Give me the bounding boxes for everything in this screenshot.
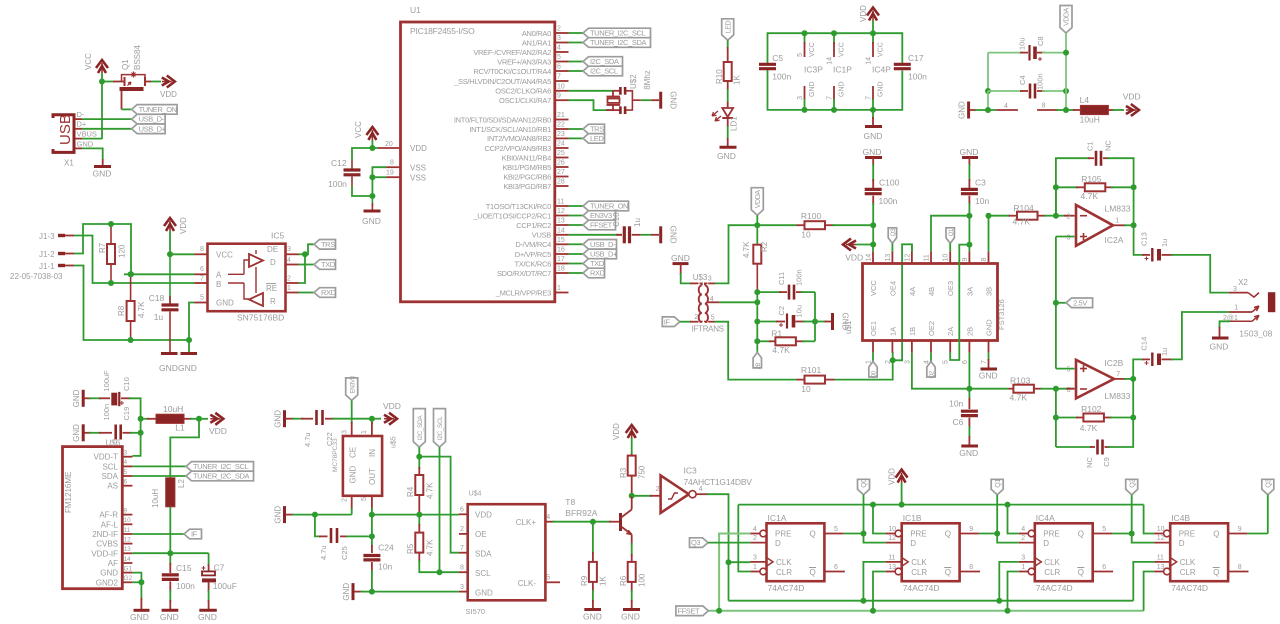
wire IC1A PRE to FFSET net <box>719 534 750 611</box>
svg-text:16: 16 <box>557 247 565 254</box>
wire VDD to pin8 <box>170 253 195 255</box>
svg-text:4: 4 <box>699 486 703 493</box>
pin 3 1B <box>911 341 913 353</box>
svg-text:1A: 1A <box>888 327 897 336</box>
ground symbol mixer input <box>831 313 834 330</box>
svg-text:IC1B: IC1B <box>903 513 922 523</box>
wire GND row to IC5 pin5 <box>131 339 189 341</box>
svg-text:AF-L: AF-L <box>101 520 119 529</box>
node OUT <box>369 512 375 518</box>
ground symbol C24 row <box>352 583 355 600</box>
svg-text:R102: R102 <box>1081 404 1102 414</box>
svg-text:4.7K: 4.7K <box>1081 191 1099 201</box>
pin 3 DE <box>286 253 299 255</box>
wire IC1B CLR <box>873 572 886 611</box>
svg-text:C5: C5 <box>772 53 783 63</box>
svg-text:I2C_SDA: I2C_SDA <box>417 415 424 440</box>
svg-text:IF: IF <box>191 530 198 539</box>
wire SCL to flag <box>132 465 186 467</box>
node IC2A out <box>1131 222 1137 228</box>
wire VBUS to VCC node <box>82 138 102 140</box>
svg-text:I2C_SCL: I2C_SCL <box>437 416 444 440</box>
svg-text:3: 3 <box>708 276 712 283</box>
svg-text:10: 10 <box>124 517 132 524</box>
pin 1 CLR <box>760 568 767 575</box>
svg-text:2: 2 <box>1021 535 1025 542</box>
resistor R1 4.7K <box>757 340 771 342</box>
pin 2 GND reg <box>351 496 353 510</box>
svg-text:6: 6 <box>460 507 464 514</box>
pin 5 VREF+/AN3/RA3 <box>555 61 569 63</box>
pin 9 Q <box>1228 533 1247 535</box>
svg-text:Q3: Q3 <box>691 538 700 547</box>
pin 10 AF-L <box>122 523 132 525</box>
pin 3 CLK <box>750 561 766 563</box>
wire 3B vertical <box>988 216 990 252</box>
svg-text:6: 6 <box>1102 564 1106 571</box>
pin 8 Qbar <box>1228 571 1248 573</box>
svg-text:10uH: 10uH <box>1080 115 1100 125</box>
IC U$4 SI570 <box>468 504 546 600</box>
svg-text:74AC74D: 74AC74D <box>903 583 940 593</box>
wire power block top rail <box>768 33 903 63</box>
svg-text:GND: GND <box>178 363 197 373</box>
svg-text:4: 4 <box>753 526 757 533</box>
node GND row right <box>186 337 192 343</box>
pin 17 TX/CK/RC6 <box>555 263 569 265</box>
svg-text:100uF: 100uF <box>102 370 111 392</box>
wire R101 to FST pin2 <box>835 360 893 379</box>
pin 16 D+/VP/RC5 <box>555 253 569 255</box>
flip-flop IC1A 74AC74D <box>767 523 825 581</box>
wire Q0 to Q and next D <box>863 495 865 534</box>
svg-text:C10: C10 <box>122 377 131 391</box>
wire FFSET rail <box>708 610 1143 612</box>
svg-text:3: 3 <box>1021 555 1025 562</box>
svg-text:5: 5 <box>124 469 128 476</box>
flag TUNER_I2C_SCL <box>583 28 651 38</box>
svg-text:CLK: CLK <box>1180 558 1196 567</box>
svg-text:GND: GND <box>72 389 81 407</box>
pin G1 GND <box>122 572 132 574</box>
svg-text:VDD: VDD <box>888 468 897 485</box>
svg-text:4B: 4B <box>927 287 936 296</box>
flag TRS at RB1 <box>583 124 605 134</box>
svg-text:VCC: VCC <box>216 250 233 259</box>
node VSS junction <box>369 174 375 180</box>
svg-text:3: 3 <box>753 555 757 562</box>
svg-text:KBI3/PGD/RB7: KBI3/PGD/RB7 <box>503 182 551 191</box>
pin 5 OUT reg <box>371 496 373 510</box>
svg-text:GND: GND <box>669 91 678 109</box>
svg-text:Q: Q <box>1078 568 1084 577</box>
wire IF to primary bottom <box>680 321 691 323</box>
resistor R6 100 <box>628 562 636 582</box>
wire op-amp out <box>1113 224 1126 226</box>
svg-text:2B: 2B <box>756 362 762 369</box>
svg-text:R4: R4 <box>406 486 415 497</box>
svg-text:C12: C12 <box>331 158 347 168</box>
node R2 bottom / C11 row <box>754 289 760 295</box>
svg-text:R1: R1 <box>771 328 782 338</box>
svg-text:R5: R5 <box>406 543 415 554</box>
svg-text:GND: GND <box>583 612 602 622</box>
node fb left <box>1053 184 1059 190</box>
svg-text:TUNER_I2C_SDA: TUNER_I2C_SDA <box>193 472 249 481</box>
svg-text:USB_D+: USB_D+ <box>590 250 618 259</box>
wire SCL row <box>440 571 460 573</box>
svg-text:L1: L1 <box>175 423 185 433</box>
wire 2ND-IF to flag <box>132 533 184 535</box>
flag IF at transformer <box>662 317 680 327</box>
svg-text:OE: OE <box>475 530 487 539</box>
pin 24 CCP2/VPO/AN9/RB3 <box>555 147 569 149</box>
svg-text:5: 5 <box>711 315 715 322</box>
svg-text:AN1/RA1: AN1/RA1 <box>522 38 551 47</box>
wire C2 to GND <box>815 321 827 323</box>
svg-text:10: 10 <box>801 230 811 240</box>
svg-text:I2C_SDA: I2C_SDA <box>590 57 619 66</box>
pin 2 RE <box>286 282 299 284</box>
svg-text:R105: R105 <box>1081 174 1102 184</box>
capacitor C4 100n <box>1029 84 1032 99</box>
svg-text:3: 3 <box>557 35 561 42</box>
flag LED at RB2 <box>583 134 605 144</box>
svg-text:GND: GND <box>958 101 967 119</box>
svg-text:TXD: TXD <box>321 260 336 269</box>
resistor R102 4.7K <box>1056 417 1078 419</box>
flag RXD at RC7 <box>583 268 605 278</box>
svg-text:22-05-7038-03: 22-05-7038-03 <box>10 272 63 281</box>
svg-text:2: 2 <box>885 360 892 364</box>
node VDD regulator <box>369 416 375 422</box>
wire Q1 gate to TUNER_ON <box>121 91 123 109</box>
svg-text:74AHCT1G14DBV: 74AHCT1G14DBV <box>684 477 753 487</box>
wire VDD to IN <box>371 419 373 424</box>
flag LED top <box>722 19 734 41</box>
wire RC0 to TUNER_ON <box>569 205 584 207</box>
wire CLK+ to T8 base <box>552 521 593 523</box>
svg-text:GND: GND <box>93 169 112 179</box>
pin 4 SCL <box>122 465 132 467</box>
svg-text:1: 1 <box>287 285 291 292</box>
svg-text:Q0: Q0 <box>872 370 878 378</box>
svg-text:14: 14 <box>557 227 565 234</box>
flag USB_D+ at RC5 <box>583 249 617 259</box>
wire collector <box>631 496 633 510</box>
svg-text:VDD: VDD <box>859 5 868 22</box>
node R100 junction <box>870 222 876 228</box>
wire SDA to flag <box>132 475 186 477</box>
svg-text:4: 4 <box>1004 103 1008 110</box>
svg-text:KBI1/PGM/RB5: KBI1/PGM/RB5 <box>502 163 551 172</box>
pin 9 AF-R <box>122 514 132 516</box>
capacitor C2 10u <box>757 321 778 323</box>
pin 13 VDD-IF <box>122 552 132 554</box>
wire C8 left down <box>987 53 989 91</box>
svg-text:1u: 1u <box>154 312 164 322</box>
svg-text:SI570: SI570 <box>466 607 486 616</box>
pin 5 2A <box>949 341 951 353</box>
svg-text:1K: 1K <box>599 576 608 586</box>
pin 5 Q <box>824 533 843 535</box>
pin 7 B <box>195 282 208 284</box>
svg-text:_MCLR/VPP/RE3: _MCLR/VPP/RE3 <box>495 288 551 297</box>
svg-text:10uH: 10uH <box>163 404 183 414</box>
pin 1 R <box>286 292 299 294</box>
wire VDD branch to L2 <box>170 419 199 478</box>
wire GND row to L4 <box>987 91 989 110</box>
svg-text:C3: C3 <box>975 178 986 188</box>
wire transformer primary top <box>681 273 691 283</box>
wire IC4B PRE from rail <box>1144 505 1155 534</box>
pin 11 4B <box>930 251 932 263</box>
pin 13 CLR <box>895 568 902 575</box>
flag Q0 divider <box>858 479 870 495</box>
wire pin9 stub link <box>968 245 970 252</box>
capacitor C22 4.7u <box>315 410 318 425</box>
wire RC4 to USB_D- <box>569 243 584 245</box>
node fb2 right <box>1130 415 1136 421</box>
pin 14 VCC <box>872 251 874 263</box>
svg-text:1B: 1B <box>908 327 917 336</box>
svg-text:D: D <box>1179 539 1185 548</box>
resistor R10 1K <box>724 62 732 81</box>
capacitor C10 1u at VUSB <box>569 234 623 236</box>
svg-text:4.7K: 4.7K <box>1010 393 1028 403</box>
svg-text:100n: 100n <box>908 72 927 82</box>
svg-text:9: 9 <box>1238 526 1242 533</box>
wire GND row <box>315 514 352 516</box>
svg-text:IC3P: IC3P <box>804 65 823 75</box>
svg-text:5: 5 <box>943 360 950 364</box>
wire R10 to LD1 <box>727 81 729 90</box>
svg-text:2: 2 <box>656 486 660 493</box>
svg-text:CLK: CLK <box>776 558 792 567</box>
wire IC2B out <box>1114 378 1126 380</box>
wire secondary bottom to R101 <box>708 321 714 323</box>
svg-text:USB_D-: USB_D- <box>139 115 165 124</box>
svg-text:D: D <box>775 539 781 548</box>
inductor L4 10uH <box>1066 109 1075 111</box>
svg-text:8: 8 <box>200 246 204 253</box>
node C25 out <box>369 533 375 539</box>
pin 2 OE <box>459 533 468 535</box>
node SCL <box>437 569 443 575</box>
svg-text:13: 13 <box>888 564 896 571</box>
pin 6 VDD si570 <box>459 513 468 515</box>
pin 4 D <box>286 264 299 266</box>
svg-text:_SS/HLVDIN/C2OUT/AN4/RA5: _SS/HLVDIN/C2OUT/AN4/RA5 <box>453 77 551 86</box>
wire 2B pin down <box>968 353 970 389</box>
svg-text:9: 9 <box>557 93 561 100</box>
capacitor C11 100n <box>757 291 781 293</box>
svg-text:14: 14 <box>124 556 132 563</box>
capacitor C1 NC <box>1056 158 1090 216</box>
wire RA1 to flag <box>569 42 584 44</box>
svg-text:8: 8 <box>1042 102 1046 109</box>
flag Q0 at OE1 <box>872 353 874 362</box>
wire DE RE tie to TRS <box>299 253 306 255</box>
svg-text:OUT: OUT <box>368 468 377 485</box>
wire RC1 to EN3V3 <box>569 215 584 217</box>
power gate IC3P <box>802 30 808 36</box>
node fb right <box>1131 184 1137 190</box>
pin 4 V- <box>988 109 996 111</box>
svg-text:INT0/FLT0/SDI/SDA/AN12/RB0: INT0/FLT0/SDI/SDA/AN12/RB0 <box>454 115 551 124</box>
node R7 bottom on B row <box>108 280 114 286</box>
wire VDDA to transformer pin3 <box>715 225 757 283</box>
svg-text:OE2: OE2 <box>927 321 936 336</box>
svg-text:24: 24 <box>557 141 565 148</box>
pin 10 OSC2/CLKO/RA6 <box>555 90 569 92</box>
flag 2.5V <box>1053 300 1059 306</box>
ground symbol FST GND pin <box>988 353 990 361</box>
svg-text:5: 5 <box>1102 526 1106 533</box>
svg-text:11: 11 <box>557 199 564 206</box>
svg-text:6: 6 <box>200 266 204 273</box>
pin 9 OSC1/CLKI/RA7 <box>555 99 569 101</box>
svg-text:GND: GND <box>839 81 846 97</box>
pin 9 3A <box>968 251 970 263</box>
inductor L2 10uH <box>166 478 175 507</box>
svg-text:C18: C18 <box>149 293 165 303</box>
svg-text:C25: C25 <box>340 546 349 560</box>
svg-text:U$3: U$3 <box>693 273 708 282</box>
svg-text:VCC: VCC <box>809 42 816 57</box>
svg-text:G1: G1 <box>124 565 133 572</box>
svg-text:C19: C19 <box>122 407 131 421</box>
flag 2B net <box>756 341 758 352</box>
flip-flop IC4B 74AC74D <box>1170 523 1228 581</box>
svg-text:Q: Q <box>810 530 816 539</box>
svg-text:25: 25 <box>557 150 565 157</box>
wire CLK rail <box>729 600 1134 602</box>
svg-text:GND: GND <box>362 216 381 226</box>
svg-text:100: 100 <box>638 573 647 587</box>
capacitor C17 100n <box>894 63 911 66</box>
IC u$1 FST3126 <box>863 264 998 341</box>
svg-text:10n: 10n <box>975 196 989 206</box>
svg-text:21: 21 <box>557 112 565 119</box>
svg-text:R103: R103 <box>1010 376 1031 386</box>
flag I2C_SCL <box>583 66 623 76</box>
power symbol VDD at FST3126 <box>846 244 856 246</box>
svg-text:G2: G2 <box>124 575 133 582</box>
flag IF tuner <box>184 529 202 539</box>
wire Q2 to Q and next D <box>1131 495 1133 534</box>
svg-text:VDD-IF: VDD-IF <box>91 549 118 558</box>
pin 10 PRE <box>1164 530 1171 537</box>
resistor R8 4.7K <box>130 274 132 301</box>
svg-text:11: 11 <box>124 527 131 534</box>
svg-text:D-/VM/RC4: D-/VM/RC4 <box>515 240 551 249</box>
svg-text:C17: C17 <box>908 53 924 63</box>
svg-text:1K: 1K <box>733 75 742 85</box>
wire C13 to jack pin3 <box>1171 255 1229 293</box>
capacitor C14 1u <box>1151 353 1153 367</box>
capacitor C8 10u <box>1028 45 1030 61</box>
wire 4B to R104 row <box>911 244 913 251</box>
svg-text:13: 13 <box>124 546 132 553</box>
wire J1-2 up to top rail <box>74 224 131 274</box>
flag USB_D- <box>132 114 166 124</box>
svg-text:7: 7 <box>1116 371 1120 378</box>
svg-text:GND: GND <box>160 612 179 622</box>
svg-text:TUNER_ON: TUNER_ON <box>590 202 628 211</box>
inductor L1 10uH <box>141 418 149 420</box>
svg-text:TRS: TRS <box>321 240 335 249</box>
svg-text:GND: GND <box>475 589 493 598</box>
svg-text:A: A <box>216 270 222 279</box>
pin 2 AN0/RA0 <box>555 32 569 34</box>
power gate IC4P <box>870 30 876 36</box>
svg-text:GND: GND <box>717 151 736 161</box>
svg-text:IC2A: IC2A <box>1105 235 1124 245</box>
wire D to TXD <box>299 264 315 266</box>
ground symbol R6 <box>623 608 640 611</box>
svg-text:IFTRANS: IFTRANS <box>692 325 724 334</box>
flag EN3V3 <box>583 211 616 221</box>
svg-text:VBUS: VBUS <box>77 130 97 139</box>
wire IC4B CLK <box>1133 562 1154 601</box>
svg-text:VCC: VCC <box>354 121 363 138</box>
svg-text:VSS: VSS <box>410 164 426 173</box>
svg-text:GND: GND <box>349 466 358 484</box>
svg-text:Q: Q <box>810 568 816 577</box>
ground symbol C15 <box>162 609 179 612</box>
svg-text:5: 5 <box>361 497 368 501</box>
wire LD1 to GND <box>727 118 729 127</box>
svg-text:100uF: 100uF <box>213 581 237 591</box>
svg-text:CLR: CLR <box>911 568 927 577</box>
wire VDD top rail <box>738 504 1143 506</box>
svg-text:VDDA: VDDA <box>755 190 762 209</box>
svg-text:Q3: Q3 <box>891 228 897 236</box>
svg-text:VDD: VDD <box>475 511 492 520</box>
svg-text:5: 5 <box>546 575 550 582</box>
node VDD tuner <box>196 416 202 422</box>
svg-text:5: 5 <box>797 53 804 57</box>
svg-text:IC1A: IC1A <box>768 513 787 523</box>
svg-text:7: 7 <box>460 545 464 552</box>
svg-text:10uH: 10uH <box>151 489 160 508</box>
pin 11 2ND-IF <box>122 533 132 535</box>
svg-text:PIC18F2455-I/SO: PIC18F2455-I/SO <box>410 26 475 36</box>
wire 1B to Q row <box>912 353 970 389</box>
svg-text:100n: 100n <box>176 581 195 591</box>
wire IC4A CLR <box>1008 572 1019 611</box>
svg-text:Q1: Q1 <box>949 228 955 236</box>
resistor R3 750 <box>631 454 633 456</box>
ground symbol C18 <box>161 352 178 355</box>
wire right feedback vertical <box>814 292 816 341</box>
svg-text:R6: R6 <box>619 575 628 586</box>
LED LD1 <box>722 108 733 117</box>
pin 9 Q <box>960 533 979 535</box>
svg-text:1: 1 <box>1021 564 1025 571</box>
svg-text:OSC2/CLKO/RA6: OSC2/CLKO/RA6 <box>495 87 551 96</box>
pin VBUS <box>75 138 82 140</box>
svg-text:3: 3 <box>797 96 804 100</box>
svg-text:10n: 10n <box>378 562 392 572</box>
flag USB_D+ <box>132 124 166 134</box>
svg-text:EN3V3: EN3V3 <box>590 211 612 220</box>
svg-text:C15: C15 <box>176 563 192 573</box>
svg-text:8: 8 <box>969 564 973 571</box>
svg-text:4.7K: 4.7K <box>1013 217 1031 227</box>
wire RA4 to flag <box>569 70 584 72</box>
